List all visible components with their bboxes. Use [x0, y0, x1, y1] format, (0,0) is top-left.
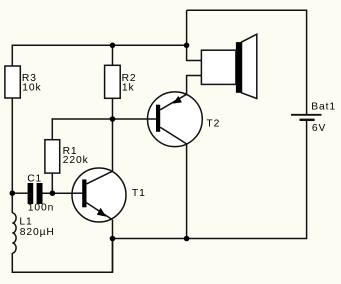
wire C1 left lead — [12, 192, 27, 194]
wire left rail middle (R3 bottom to L1 top, via C1 junction) — [11, 98, 13, 214]
wire C1 right lead to T1 base — [43, 192, 74, 194]
svg-text:1k: 1k — [122, 82, 135, 93]
svg-text:6V: 6V — [312, 123, 326, 134]
wire left rail upper (top wire to R3) — [11, 45, 13, 67]
inductor L1 label — [19, 216, 54, 238]
capacitor C1 — [27, 174, 54, 214]
wire T2 emitter up to speaker bottom terminal — [187, 76, 202, 95]
wire top-left horizontal y=45 — [12, 44, 186, 46]
node: T1 emitter junction — [110, 236, 116, 242]
node: T1 base junction — [50, 190, 56, 196]
resistor R3 — [5, 66, 42, 98]
wire speaker top terminal vertical + stub — [187, 10, 202, 60]
node: T1 collector / base divider junction — [110, 116, 116, 122]
node: R2 top junction — [110, 43, 116, 49]
wire R1 bottom vertical to base node — [51, 173, 53, 194]
wire left rail bottom + bottom rail left + up to emitter node — [12, 239, 112, 273]
wire mid horizontal y=119 (R1 top node to T2 base) — [52, 118, 148, 120]
resistor R2 — [105, 65, 137, 98]
svg-text:T2: T2 — [206, 119, 220, 130]
wire top horizontal y=10 (speaker node to battery plus) — [187, 10, 307, 114]
node: C1 left junction — [10, 190, 16, 196]
svg-text:220k: 220k — [63, 155, 89, 166]
svg-text:820µH: 820µH — [20, 227, 55, 238]
wire T2 collector down to rail — [186, 144, 188, 239]
wire R2 bottom down to T1 collector — [112, 98, 114, 172]
transistor T2 — [147, 92, 220, 147]
svg-text:L1: L1 — [19, 216, 32, 227]
inductor L1 coil — [12, 213, 16, 253]
resistor R1 — [45, 140, 89, 173]
wire emitter rail y=238.5 to battery minus — [113, 120, 307, 238]
transistor T1 — [72, 168, 146, 222]
svg-text:10k: 10k — [22, 82, 41, 93]
svg-text:C1: C1 — [27, 174, 42, 185]
svg-text:100n: 100n — [28, 203, 55, 214]
svg-text:Bat1: Bat1 — [311, 101, 336, 112]
node: speaker branch junction — [184, 43, 190, 49]
node: T2 collector junction — [184, 236, 190, 242]
svg-text:T1: T1 — [132, 188, 146, 199]
wire R1 top vertical — [51, 118, 53, 140]
speaker — [201, 34, 256, 98]
battery Bat1 — [291, 101, 336, 134]
wire T1 emitter down to bottom node — [112, 220, 114, 273]
wire R2 top (y=45 rail down to R2) — [112, 45, 114, 67]
